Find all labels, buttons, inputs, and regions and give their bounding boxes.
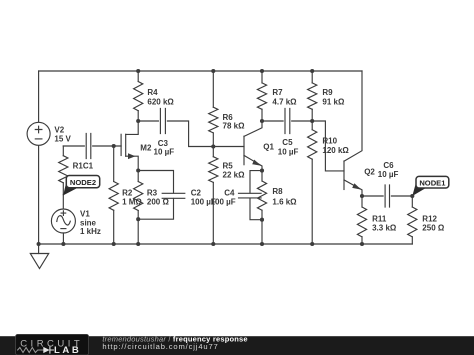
svg-text:10 µF: 10 µF	[278, 148, 299, 157]
svg-text:10 µF: 10 µF	[154, 148, 175, 157]
svg-text:sine: sine	[80, 218, 97, 227]
svg-text:C5: C5	[282, 138, 293, 147]
svg-text:120 kΩ: 120 kΩ	[322, 146, 349, 155]
svg-text:4.7 kΩ: 4.7 kΩ	[272, 97, 297, 106]
svg-text:M2: M2	[140, 144, 152, 153]
svg-text:3.3 kΩ: 3.3 kΩ	[372, 224, 397, 233]
svg-text:NODE2: NODE2	[70, 178, 96, 187]
svg-text:R6: R6	[223, 113, 234, 122]
svg-text:Q1: Q1	[263, 143, 274, 152]
svg-text:V2: V2	[54, 126, 64, 135]
svg-text:10 µF: 10 µF	[378, 170, 399, 179]
svg-text:R3: R3	[147, 188, 158, 197]
svg-text:C4: C4	[224, 189, 235, 198]
svg-text:250 Ω: 250 Ω	[422, 224, 445, 233]
svg-text:1.6 kΩ: 1.6 kΩ	[272, 197, 297, 206]
svg-text:R1C1: R1C1	[73, 162, 94, 171]
svg-text:R8: R8	[272, 187, 283, 196]
svg-text:15 V: 15 V	[54, 135, 71, 144]
svg-text:C2: C2	[191, 189, 202, 198]
svg-text:R2: R2	[122, 188, 133, 197]
svg-text:R9: R9	[322, 88, 333, 97]
svg-text:R5: R5	[223, 162, 234, 171]
svg-text:78 kΩ: 78 kΩ	[223, 122, 246, 131]
svg-text:Q2: Q2	[364, 167, 375, 176]
svg-text:620 kΩ: 620 kΩ	[147, 97, 174, 106]
svg-text:R12: R12	[422, 214, 437, 223]
svg-text:http://circuitlab.com/cjj4u77: http://circuitlab.com/cjj4u77	[102, 342, 218, 351]
svg-text:R7: R7	[272, 88, 283, 97]
svg-text:R10: R10	[322, 137, 337, 146]
svg-text:R11: R11	[372, 214, 387, 223]
svg-text:V1: V1	[80, 209, 90, 218]
svg-text:1 kHz: 1 kHz	[80, 227, 101, 236]
svg-text:R4: R4	[147, 88, 158, 97]
svg-text:91 kΩ: 91 kΩ	[322, 97, 345, 106]
svg-text:C6: C6	[383, 161, 394, 170]
svg-text:22 kΩ: 22 kΩ	[223, 171, 246, 180]
svg-text:100 µF: 100 µF	[211, 197, 236, 206]
svg-text:LAB: LAB	[54, 345, 81, 355]
svg-text:NODE1: NODE1	[419, 179, 446, 188]
